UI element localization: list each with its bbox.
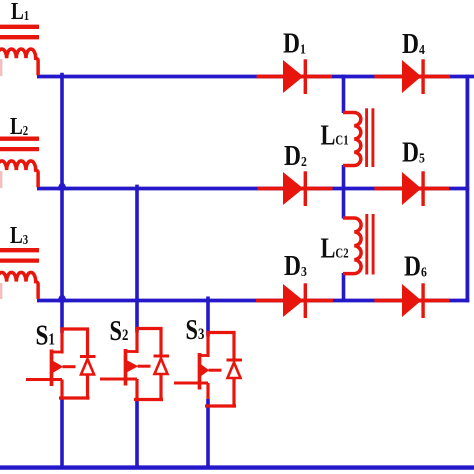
switch S1 (MOSFET with body diode) — [26, 327, 96, 399]
label L2 — [10, 113, 28, 140]
coupled inductor LC1 core bars — [365, 108, 368, 167]
wire S3 source to bottom bus — [206, 399, 210, 468]
wire right output bus (vertical, blue) — [465, 75, 469, 303]
wire vertical LC2 bottom to H3 — [342, 273, 346, 302]
coupled inductor LC2 coil — [343, 218, 361, 274]
inductor L3 core bars — [0, 248, 39, 252]
coupled inductor LC1 coil — [343, 113, 361, 166]
label LC2 — [321, 233, 349, 264]
wire red segment row1 around D4 — [374, 75, 450, 79]
left-edge crop artifact at L1 — [0, 59, 2, 76]
wire bus H2 (middle row, blue) — [37, 187, 469, 191]
diode D1 — [283, 60, 303, 93]
left-edge crop artifact at L2 — [0, 171, 2, 188]
wire red segment row2 around D2 — [258, 187, 333, 191]
diode D6 — [402, 284, 421, 317]
wire red segment row1 around D1 — [257, 75, 333, 79]
label D6 — [404, 251, 427, 282]
wire vertical from L3 node to S3 drain — [206, 297, 210, 337]
inductor L1 coil — [0, 49, 38, 75]
inductor L2 coil — [0, 161, 38, 187]
wire vertical LC1 bottom through H2 to LC2 top — [342, 165, 346, 219]
inductor L1 core bars — [0, 25, 39, 29]
wire vertical D1-junction to LC1 top — [342, 75, 346, 113]
crossover hop at (62,188) no connection — [58, 183, 67, 190]
coupled inductor LC2 core bars — [365, 214, 368, 275]
label S1 — [36, 319, 56, 351]
label D2 — [284, 140, 307, 171]
wire vertical from L1 node to S1 drain — [60, 73, 64, 333]
label LC1 — [321, 120, 349, 151]
wire red segment row2 around D5 — [374, 187, 449, 191]
diode D2 — [283, 172, 303, 205]
label D4 — [402, 28, 425, 59]
wire red segment row3 around D6 — [374, 299, 449, 303]
diode D3 — [283, 284, 303, 317]
wire red segment row3 around D3 — [256, 299, 333, 303]
label L3 — [10, 222, 28, 249]
diode D4 — [402, 60, 421, 93]
wire S1 source to bottom bus — [60, 397, 64, 469]
left-edge crop artifact at L3 — [0, 283, 2, 299]
label L1 — [11, 0, 29, 25]
label D1 — [283, 28, 306, 59]
diode D5 — [402, 172, 421, 205]
inductor L3 coil — [0, 272, 38, 298]
inductor L2 core bars — [0, 137, 39, 141]
crossover hop at (62,300) no connection — [58, 295, 67, 302]
wire bus H1 (top row, blue) — [37, 75, 474, 79]
label S2 — [110, 316, 129, 347]
wire bus H3 (bottom row, blue) — [37, 299, 469, 303]
switch S3 (MOSFET with body diode) — [174, 331, 242, 408]
label D3 — [284, 250, 307, 281]
wire vertical from L2 node to S2 drain — [135, 185, 139, 333]
wire bottom return bus (blue) — [0, 465, 474, 469]
switch S2 (MOSFET with body diode) — [100, 327, 169, 401]
wire S2 source to bottom bus — [135, 398, 139, 468]
label S3 — [186, 315, 205, 346]
label D5 — [402, 137, 425, 168]
